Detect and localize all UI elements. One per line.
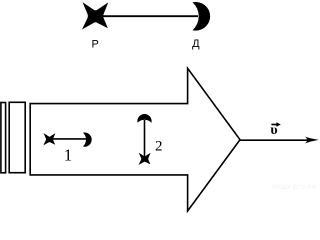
label D: [192, 38, 200, 50]
big arrow (rocket) outline: [30, 68, 240, 211]
svg-text:Р: Р: [92, 38, 99, 50]
marker point 2 star: [138, 153, 150, 165]
wire: displacement arrow line P to D: [97, 15, 198, 17]
tail bar A (leftmost thin rectangle): [1, 103, 6, 173]
velocity arrowhead: [305, 137, 319, 144]
crescent arrowhead at point 2 (pointing up): [137, 114, 151, 123]
svg-text:Д: Д: [192, 38, 200, 50]
tail bar B (second rectangle): [9, 102, 25, 172]
crescent arrowhead at D: [193, 2, 211, 31]
point P star symbol: [82, 2, 108, 29]
label P: [92, 38, 99, 50]
svg-text:1: 1: [64, 145, 72, 164]
svg-text:РЕШУ ЕГЭ.РФ: РЕШУ ЕГЭ.РФ: [272, 184, 317, 191]
svg-text:2: 2: [155, 138, 163, 154]
label 2: [155, 138, 163, 154]
wire: velocity vector line: [240, 139, 310, 141]
crescent arrowhead at point 1: [83, 132, 92, 146]
label 1: [64, 145, 72, 164]
wire: vertical arrow line at point 2: [144, 120, 146, 159]
watermark: [272, 184, 317, 191]
wire: arrow line at point 1: [50, 138, 87, 140]
label v vector: [270, 122, 280, 138]
marker point 1 star: [43, 133, 55, 145]
